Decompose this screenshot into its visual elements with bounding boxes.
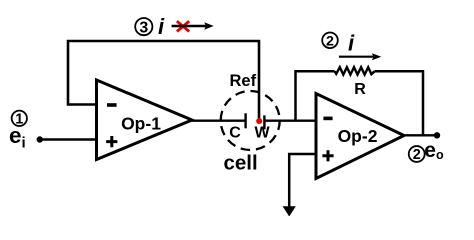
arrow loop-3 current direction (172, 22, 214, 29)
wire Op-2 + input to ground (289, 154, 316, 207)
wire feedback loop 2 left segment (296, 71, 335, 120)
label circled 2 (output) (409, 146, 425, 163)
node input dot e_i (37, 136, 43, 142)
label circled 3 (135, 18, 152, 37)
op-amp Op-2 (316, 94, 404, 179)
ground (arrow down) (283, 206, 296, 216)
red X (no current) (177, 21, 189, 31)
svg-text:3: 3 (139, 20, 148, 37)
svg-text:Op-1: Op-1 (121, 114, 161, 134)
cell electrode C bar (244, 113, 246, 128)
label circled 1 (12, 111, 27, 128)
op-amp Op-1 (97, 80, 193, 160)
svg-text:W: W (254, 125, 270, 142)
svg-text:i: i (348, 30, 355, 55)
wire feedback loop 2 right segment (375, 71, 423, 135)
svg-text:C: C (229, 125, 241, 142)
node Ref electrode tip (red dot) (256, 118, 262, 124)
wire Op-2 output (402, 134, 437, 136)
svg-text:Ref: Ref (230, 72, 257, 90)
resistor R (335, 67, 375, 74)
svg-text:Op-2: Op-2 (338, 126, 378, 146)
label circled 2 (current loop) (322, 33, 338, 50)
node output dot (434, 132, 440, 138)
cell electrode W bar (263, 115, 265, 129)
arrow loop-2 current direction (339, 53, 381, 60)
wire W electrode to Op-2 inverting input (264, 119, 316, 121)
wire feedback loop 1 (Ref to Op-1 inverting input) (68, 41, 259, 119)
svg-text:R: R (354, 81, 366, 98)
cell boundary (dashed circle) (221, 91, 280, 150)
svg-text:cell: cell (224, 152, 258, 175)
wire Op-1 output to cell C electrode (190, 119, 246, 121)
svg-text:2: 2 (413, 147, 421, 163)
svg-text:2: 2 (326, 33, 334, 49)
wire e_i to Op-1 + input (40, 138, 97, 140)
svg-text:i: i (158, 14, 165, 39)
